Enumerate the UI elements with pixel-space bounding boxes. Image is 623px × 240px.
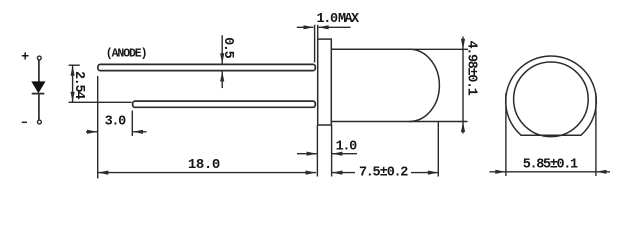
svg-text:2.54: 2.54 bbox=[71, 71, 86, 99]
svg-text:+: + bbox=[21, 51, 29, 66]
extension line below flange right face (for 1.0 and 7.5) bbox=[331, 125, 333, 177]
dimension 0.5 lead thickness: lower segment with arrow bbox=[221, 71, 223, 88]
extension line at cathode lead start (for 3.0) bbox=[131, 111, 133, 137]
extension line body top edge (for 4.98) bbox=[409, 48, 468, 50]
dimension 1.0 flange thickness: left segment with arrow bbox=[297, 153, 317, 155]
svg-text:3.0: 3.0 bbox=[105, 115, 127, 130]
diode symbol cathode terminal circle bbox=[38, 120, 42, 124]
extension line at lead tie bar (for 1.0MAX) bbox=[314, 25, 316, 63]
dimension 7.5±0.2 line left part with arrow bbox=[332, 172, 355, 174]
svg-text:7.5±0.2: 7.5±0.2 bbox=[359, 165, 408, 180]
svg-text:5.85±0.1: 5.85±0.1 bbox=[523, 157, 578, 172]
diode symbol anode terminal circle bbox=[37, 56, 41, 60]
dimension 4.98±0.1 vertical line with arrows bbox=[462, 37, 464, 134]
dimension 5.85±0.1 line with outside arrows bbox=[490, 171, 611, 173]
svg-text:1.0MAX: 1.0MAX bbox=[317, 12, 360, 27]
extension line bottom of leads spacing (for 2.54) bbox=[69, 101, 132, 103]
diode symbol cathode bar bbox=[32, 93, 45, 95]
dimension 0.5 lead thickness: upper segment with arrow bbox=[221, 35, 223, 63]
top view inner body circle bbox=[514, 62, 589, 137]
anode lead (long lead, top) bbox=[98, 64, 315, 70]
extension line at anode lead start (for 3.0 and 18.0) bbox=[97, 76, 99, 179]
dimension 2.54 vertical line with arrows bbox=[72, 65, 74, 102]
svg-text:18.0: 18.0 bbox=[188, 157, 220, 173]
cathode lead (short lead, bottom) bbox=[133, 101, 316, 107]
extension line right of circle (for 5.85) bbox=[595, 93, 597, 176]
extension line from dome tip (for 7.5) bbox=[437, 122, 439, 177]
extension line left of circle (for 5.85) bbox=[505, 93, 507, 176]
diode symbol cathode wire bbox=[38, 95, 40, 121]
extension line above flange left face (for 1.0MAX) bbox=[317, 25, 319, 39]
svg-text:0.5: 0.5 bbox=[220, 37, 235, 59]
extension line top of leads spacing (for 2.54) bbox=[69, 64, 80, 66]
dimension 3.0 line right segment with arrow bbox=[133, 131, 147, 133]
extension line body bottom edge (for 4.98) bbox=[409, 121, 468, 123]
dimension 1.0MAX line left segment with arrow bbox=[297, 26, 314, 28]
diode symbol anode wire bbox=[38, 60, 40, 82]
svg-text:4.98±0.1: 4.98±0.1 bbox=[464, 40, 479, 95]
dimension 1.0MAX line right segment with arrow bbox=[319, 26, 351, 28]
svg-text:(ANODE): (ANODE) bbox=[106, 47, 147, 60]
dimension 1.0 flange thickness: right segment with arrow bbox=[332, 153, 357, 155]
LED polarity symbol: minus sign bbox=[22, 121, 27, 123]
dimension 7.5±0.2 line right part with arrow bbox=[411, 172, 438, 174]
dimension 18.0 line with arrows bbox=[98, 172, 317, 174]
extension line below flange left face (for 1.0 and 18.0) bbox=[316, 125, 318, 177]
svg-text:1.0: 1.0 bbox=[336, 140, 358, 155]
dimension 3.0 line left segment with arrow bbox=[86, 131, 97, 133]
LED flange (rim) bbox=[318, 39, 332, 125]
diode symbol triangle (anode) bbox=[32, 82, 44, 92]
LED body epoxy dome outline bbox=[331, 49, 439, 121]
top view outer flange circle with flat bbox=[506, 56, 597, 135]
